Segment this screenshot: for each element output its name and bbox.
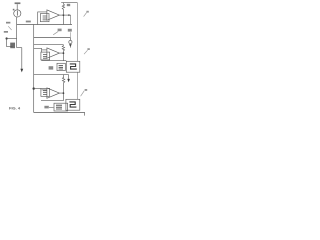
label 16 (4, 31, 8, 33)
resistor R2 (62, 45, 64, 53)
current source I1 (14, 10, 21, 17)
supply rail top (61, 2, 77, 4)
transistor Q1 (7, 39, 13, 47)
lead line 26 (53, 31, 58, 34)
lead line (8, 26, 11, 30)
box B5 (41, 88, 50, 96)
wire y48.4 (34, 48, 42, 52)
waveform square wave 2 (69, 102, 76, 107)
box B2 contents (43, 55, 47, 59)
junction (63, 92, 65, 94)
wire (21, 48, 23, 70)
lead line 28 (69, 32, 71, 37)
label 42 (87, 48, 89, 50)
lead line 42 (84, 50, 88, 54)
junction dot bus (33, 87, 35, 89)
wire (70, 15, 72, 24)
label 44 (85, 89, 88, 91)
bus vertical right lower (77, 72, 79, 99)
box B1 (40, 14, 49, 22)
arrowhead U1 out (68, 14, 70, 16)
resistor R3 (62, 75, 64, 94)
wire y100.7 (41, 100, 63, 102)
op-amp U3 (47, 88, 60, 98)
box B6 contents (56, 105, 62, 109)
svg-text:FIG. 4: FIG. 4 (9, 105, 21, 110)
transistor Q1 body (10, 43, 15, 49)
arrow to box (49, 106, 54, 108)
junction (63, 52, 65, 54)
label 40 (86, 11, 88, 13)
wire y37.5 (34, 37, 71, 39)
wire y60.7 (41, 60, 66, 62)
wire stub (68, 75, 70, 80)
wire U2 in (42, 49, 47, 51)
diode D1 tail (69, 44, 71, 48)
box B1 contents (43, 16, 47, 20)
box B6 (54, 103, 68, 111)
label 12 (13, 9, 15, 11)
wire (17, 47, 22, 49)
current source arrow (16, 11, 18, 16)
wire (16, 17, 18, 47)
diode D1 (69, 38, 71, 41)
wire (16, 4, 18, 10)
stage1 input stub (38, 12, 47, 25)
resistor R1 (62, 3, 64, 16)
output arrow down (20, 69, 23, 73)
wire y74.6 (34, 74, 69, 76)
arrow down (67, 79, 70, 83)
op-amp U2 (47, 48, 60, 58)
wire (7, 38, 17, 40)
label 24 (67, 4, 70, 6)
label 22 (26, 21, 31, 23)
label 14 (6, 22, 10, 24)
box B3 small (57, 63, 65, 70)
op-amp U1 (47, 10, 60, 20)
wire y44.6 (34, 44, 64, 46)
label 26b (58, 29, 62, 32)
diode D1 arrow (69, 44, 72, 47)
box B2 (41, 52, 50, 60)
waveform square wave (70, 64, 77, 69)
wire U2 out (59, 53, 63, 61)
label 36 arrow (49, 66, 54, 69)
box B5 contents (43, 91, 47, 95)
box B4 waveform (66, 61, 80, 72)
wire U3 out (59, 93, 63, 101)
label arrow bottom (44, 106, 48, 109)
box B7 waveform (66, 99, 80, 110)
lead line 44 (81, 91, 85, 96)
wire bottom (34, 113, 85, 116)
label 26 (68, 29, 72, 32)
junction (63, 14, 65, 16)
wire U1 out (59, 14, 70, 16)
bus vertical x33.7 (33, 25, 35, 113)
wire y88.6 (34, 88, 41, 90)
diode D1 circle (69, 40, 72, 43)
node A junction dot (6, 37, 8, 39)
supply terminal V+ (15, 2, 21, 4)
lead line 40 (84, 13, 87, 17)
wire U3 in (42, 89, 47, 91)
box B3 contents (59, 65, 63, 69)
bus vertical right x77.4 (76, 3, 78, 62)
wire U1 out down (62, 15, 64, 24)
wire bus horizontal y24.5 (17, 24, 72, 26)
